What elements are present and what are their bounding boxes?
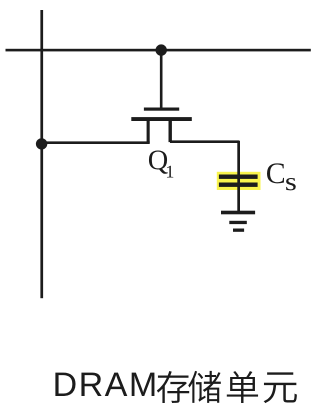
- wire: capacitor lead (vertical, through C_S down to ground): [237, 141, 240, 211]
- wire: source wire from bit line junction to Q1 source leg: [41, 141, 150, 144]
- label Q1 (transistor reference designator): [149, 150, 173, 177]
- wire: drain wire from Q1 drain leg to capacitor lead: [170, 140, 240, 143]
- ground symbol (3 bars): [221, 211, 255, 232]
- caption: DRAM (latin part): [55, 373, 154, 396]
- label Cs (storage capacitor designator): [267, 163, 296, 190]
- transistor Q1 gate bar: [144, 108, 179, 111]
- transistor Q1 channel bar: [131, 117, 192, 121]
- caption: 存储单元 (CJK part): [157, 371, 297, 403]
- wire: word line (horizontal): [6, 49, 311, 52]
- capacitor C_S yellow highlight: [217, 172, 261, 190]
- node: junction dot on bit line: [36, 138, 47, 149]
- node: junction dot on word line (gate tap): [156, 44, 167, 55]
- wire: bit line (vertical): [40, 10, 43, 298]
- wire: Q1 source leg (left, down from channel): [147, 121, 150, 143]
- wire: Q1 drain leg (right, down from channel): [169, 121, 172, 142]
- capacitor C_S bottom plate: [219, 183, 258, 187]
- wire: gate lead from word line down to Q1 gate: [160, 50, 163, 108]
- capacitor C_S top plate: [219, 175, 258, 179]
